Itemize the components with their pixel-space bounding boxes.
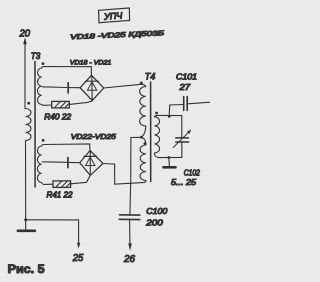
wire upper center tap: [42, 86, 67, 89]
svg-text:УПЧ: УПЧ: [103, 10, 124, 21]
wire lower center tap: [42, 161, 66, 164]
junction dot bottom rail: [168, 156, 171, 159]
svg-text:26: 26: [123, 254, 135, 265]
transformer T3 core: [34, 62, 36, 188]
wire C100 to node 26: [129, 220, 131, 244]
svg-text:5... 25: 5... 25: [171, 178, 197, 187]
wire R41 to bridge2 bottom corner: [71, 176, 91, 184]
svg-text:R41 22: R41 22: [47, 191, 74, 200]
C102 variable arrow: [173, 132, 189, 148]
capacitor C102 plates: [176, 137, 189, 139]
resistor R41: [53, 181, 71, 188]
wire secondary top rail: [155, 115, 182, 116]
terminal bar upper tap: [67, 83, 69, 93]
svg-text:C100: C100: [146, 207, 168, 216]
T3 upper secondary winding: [37, 68, 41, 105]
svg-text:25: 25: [72, 253, 84, 264]
T4 primary upper winding: [140, 87, 146, 127]
wire ground junction to node 25: [26, 220, 79, 244]
tap junction dot: [140, 136, 143, 139]
terminal bar lower tap: [67, 158, 69, 168]
diode bridge VD18-VD21: [80, 75, 104, 100]
svg-text:27: 27: [178, 83, 190, 92]
wire tap to down line: [131, 137, 142, 183]
svg-text:T4: T4: [145, 72, 156, 82]
wire down to C100: [129, 183, 132, 214]
svg-text:R40 22: R40 22: [44, 113, 71, 122]
T3 lower secondary polarity dot: [42, 139, 45, 142]
transformer T3 primary winding: [26, 109, 32, 141]
wire lower secondary bottom to R41: [42, 183, 53, 185]
node 20 output arrow: [24, 44, 26, 109]
T4 secondary polarity dot: [155, 112, 158, 115]
wire bar to bridge left corner: [69, 87, 80, 89]
capacitor C101 left wire: [169, 105, 183, 117]
T4 secondary winding: [155, 117, 160, 153]
diode bridge VD22-VD25: [80, 151, 103, 176]
block label УПЧ box: [99, 8, 130, 23]
wire R40 to bridge bottom corner: [69, 101, 92, 105]
svg-text:C102: C102: [184, 168, 200, 177]
T3 upper secondary polarity dot: [42, 62, 45, 65]
svg-text:VD18 - VD21: VD18 - VD21: [70, 59, 112, 66]
wire upper secondary bottom to R40: [42, 104, 52, 107]
T4 primary lower winding: [142, 137, 147, 145]
wire bridge2 output down and right: [103, 164, 145, 185]
ground right: [168, 158, 170, 166]
transformer T4 core: [150, 82, 152, 182]
wire upper secondary top to bridge top: [42, 67, 92, 76]
wire bridge1 output to T4: [104, 84, 146, 88]
svg-text:T3: T3: [31, 51, 41, 61]
wire secondary bottom rail: [155, 153, 182, 158]
svg-text:C101: C101: [176, 72, 197, 81]
resistor R40: [52, 101, 70, 108]
T3 primary polarity dot: [27, 102, 30, 105]
capacitor C100 plates: [120, 214, 140, 216]
svg-text:VD22-VD25: VD22-VD25: [71, 134, 116, 141]
ground left: [25, 220, 27, 230]
T4 primary polarity dot: [140, 82, 143, 85]
wire right side of tank: [181, 116, 183, 137]
bridge2 diode symbol: [89, 152, 91, 175]
ground left junction dot: [24, 218, 27, 221]
svg-text:20: 20: [19, 29, 31, 40]
svg-text:200: 200: [145, 218, 163, 227]
capacitor C101 plates: [183, 97, 185, 111]
C101 right wire: [188, 102, 210, 104]
junction dot top rail: [168, 115, 171, 118]
T4 lower primary polarity dot: [144, 142, 147, 145]
bridge diode symbol: [91, 77, 93, 100]
T3 lower secondary winding: [37, 146, 41, 183]
wire winding to tap junction: [142, 126, 146, 137]
wire primary bottom to ground junction: [25, 141, 27, 220]
wire bar to bridge2 left corner: [69, 161, 80, 163]
svg-text:Рис. 5: Рис. 5: [8, 263, 46, 276]
wire lower secondary top to bridge2 top: [42, 144, 90, 151]
